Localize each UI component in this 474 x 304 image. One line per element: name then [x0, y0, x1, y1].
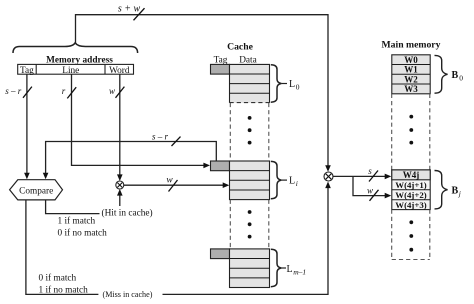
svg-text:m–1: m–1	[293, 267, 306, 276]
svg-text:B: B	[452, 186, 459, 197]
slash on word wire	[116, 87, 125, 98]
slash on s wire	[369, 171, 378, 182]
svg-text:(Hit in cache): (Hit in cache)	[102, 208, 153, 219]
svg-text:r: r	[62, 86, 66, 96]
svg-text:Compare: Compare	[19, 187, 53, 197]
wire cache tag to compare (s-r)	[46, 142, 217, 175]
main memory block Bj	[392, 170, 430, 210]
svg-text:L: L	[287, 264, 293, 275]
cache line Lm-1 tag cell	[211, 249, 230, 259]
main memory dots lower	[409, 220, 413, 224]
svg-text:0 if match: 0 if match	[39, 273, 77, 284]
divider Line|Word	[104, 64, 106, 74]
main memory block B0	[392, 55, 430, 94]
slash on w branch	[370, 190, 379, 201]
cache dots upper	[248, 116, 252, 120]
svg-text:B: B	[452, 70, 459, 81]
slash on cache tag wire	[172, 137, 181, 146]
svg-text:w: w	[109, 86, 115, 96]
wire w from hit gate to cache data	[124, 184, 225, 186]
divider Tag|Line	[35, 64, 37, 74]
svg-text:W(4j+3): W(4j+3)	[395, 200, 426, 210]
svg-text:L: L	[289, 79, 295, 90]
cache line Li data block	[230, 161, 270, 200]
slash on tag wire	[23, 87, 32, 98]
cache line Lm-1 data block	[230, 249, 270, 288]
brace Bj	[435, 171, 448, 209]
miss output wire	[26, 200, 99, 295]
cache line L0 data block	[230, 64, 270, 103]
brace over memory address	[13, 43, 138, 53]
cache line L0 tag cell	[211, 64, 230, 74]
svg-text:0: 0	[459, 73, 463, 82]
cache dashed boundary lower	[229, 200, 231, 249]
arrowhead into right gate top	[325, 165, 331, 172]
hit gate (circle-x)	[116, 181, 124, 189]
wire s from gate to W4j	[333, 175, 387, 177]
svg-text:W(4j+1): W(4j+1)	[395, 180, 426, 190]
cache dashed boundary upper	[229, 103, 231, 161]
main memory dashed bottom	[392, 259, 430, 261]
svg-text:Main memory: Main memory	[382, 40, 441, 51]
wire tag field to compare	[26, 74, 28, 174]
svg-text:Memory address: Memory address	[46, 55, 113, 65]
svg-text:Cache: Cache	[227, 41, 254, 52]
svg-text:Line: Line	[62, 66, 79, 76]
svg-text:L: L	[289, 175, 295, 186]
wire line field to cache line select	[72, 74, 206, 165]
cache line Li tag cell	[211, 161, 230, 171]
brace Lm-1	[271, 249, 282, 286]
svg-text:(Miss in cache): (Miss in cache)	[103, 290, 153, 299]
main memory dashed boundary lower	[391, 210, 393, 260]
svg-text:W3: W3	[404, 84, 418, 94]
brace L0	[271, 65, 282, 102]
miss wire to main memory gate	[163, 187, 329, 295]
slash on w wire	[169, 180, 178, 192]
svg-text:w: w	[166, 176, 173, 186]
svg-text:W(4j+2): W(4j+2)	[395, 190, 426, 200]
slash on line wire	[67, 87, 76, 98]
svg-text:j: j	[458, 189, 461, 198]
brace Li	[271, 161, 282, 198]
wire word field to hit gate	[119, 74, 121, 176]
main memory dashed boundary upper	[391, 94, 393, 170]
cache dots lower	[248, 210, 252, 214]
svg-text:s + w: s + w	[118, 4, 141, 15]
svg-text:0: 0	[296, 82, 300, 91]
svg-text:w: w	[367, 185, 373, 195]
svg-text:W0: W0	[404, 55, 418, 65]
svg-text:i: i	[296, 179, 298, 188]
svg-text:1 if no match: 1 if no match	[39, 285, 89, 296]
wire hit to gate	[119, 193, 121, 207]
comparator U1	[10, 180, 63, 200]
wire s+w from address brace to main-memory gate	[76, 15, 329, 167]
hit output wire	[46, 200, 100, 214]
svg-text:0 if no match: 0 if no match	[58, 228, 108, 239]
main memory gate (circle-x)	[324, 172, 333, 181]
slash on s+w wire	[134, 8, 145, 20]
svg-text:W1: W1	[404, 65, 418, 75]
brace B0	[435, 55, 448, 93]
svg-text:W4j: W4j	[403, 170, 420, 180]
memory address register box	[18, 64, 134, 74]
svg-text:1 if match: 1 if match	[58, 216, 96, 227]
svg-text:s – r: s – r	[5, 86, 22, 96]
svg-text:W2: W2	[404, 74, 418, 84]
svg-text:s – r: s – r	[152, 132, 169, 142]
svg-text:s: s	[368, 166, 372, 176]
main memory dots upper	[409, 115, 413, 119]
wire w branch to W(4j+2)	[353, 176, 387, 195]
